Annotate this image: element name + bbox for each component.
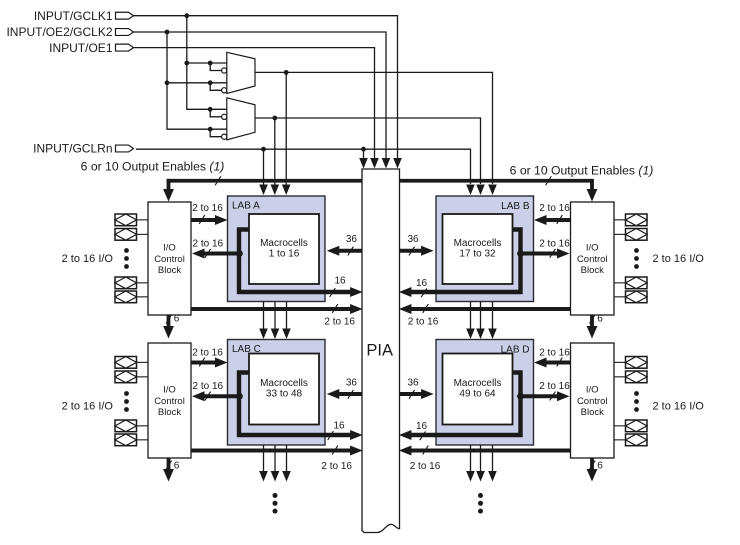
macrocells box LAB A	[249, 214, 319, 284]
input pad INPUT/OE1	[49, 41, 133, 55]
svg-text:Control: Control	[154, 254, 185, 265]
thick feedback wrap LAB C with 16 bus to PIA	[239, 373, 363, 441]
label 16 bus LAB C	[328, 421, 345, 440]
svg-text:49 to 64: 49 to 64	[459, 388, 496, 399]
svg-text:LAB B: LAB B	[501, 201, 530, 212]
LAB A block	[228, 196, 326, 302]
svg-text:Control: Control	[154, 396, 185, 407]
bus 2 to 16 from LAB B to I/O Control Block	[521, 239, 571, 259]
bus 6 below I/O Control Block (LAB C side)	[163, 458, 180, 482]
svg-text:Macrocells: Macrocells	[260, 378, 308, 389]
svg-text:2 to 16: 2 to 16	[192, 203, 223, 214]
svg-text:I/O: I/O	[586, 243, 599, 254]
bus 2 to 16 from I/O Control Block into LAB B	[534, 203, 572, 225]
svg-text:2 to 16 I/O: 2 to 16 I/O	[653, 400, 705, 412]
mux U1 input pair 2 inverted-input stub and junction dot	[208, 80, 227, 93]
bus 2 to 16 from I/O Control Block into LAB A	[190, 203, 228, 225]
bus 2 to 16 from I/O Control Block to PIA below LAB A	[191, 304, 363, 327]
LAB B block	[436, 196, 534, 302]
svg-text:17 to 32: 17 to 32	[459, 248, 496, 259]
I/O cell 1 (LAB C side)	[115, 357, 148, 369]
wires below LAB D	[466, 445, 497, 482]
label Macrocells 33 to 48	[260, 378, 308, 400]
I/O Control Block (LAB C side)	[148, 343, 191, 458]
svg-text:Block: Block	[158, 265, 181, 276]
svg-text:36: 36	[407, 377, 419, 388]
wire GCLK2 feed vertical to mux inputs	[167, 32, 227, 129]
svg-text:Control: Control	[577, 254, 608, 265]
wire GCLRn drop into LAB A	[259, 147, 268, 195]
svg-text:I/O: I/O	[163, 385, 176, 396]
I/O Control Block (LAB A side)	[148, 202, 191, 315]
svg-text:36: 36	[407, 234, 419, 245]
svg-text:36: 36	[346, 234, 358, 245]
svg-text:LAB A: LAB A	[232, 200, 260, 211]
input pad INPUT/OE2/GCLK2	[6, 25, 133, 39]
ellipsis dots below LAB C	[273, 493, 278, 514]
macrocells box LAB D	[443, 354, 513, 425]
I/O cell 3 (LAB D side)	[614, 420, 647, 432]
svg-text:Block: Block	[158, 407, 181, 418]
bus 2 to 16 from I/O Control Block to PIA below LAB D	[399, 446, 571, 472]
svg-text:6 or 10 Output Enables (1): 6 or 10 Output Enables (1)	[81, 160, 225, 174]
wire mux1 lower input branch from GCLK2	[167, 82, 227, 84]
macrocells box LAB B	[443, 214, 513, 284]
bus 2 to 16 from LAB D to I/O Control Block	[521, 381, 571, 401]
wire GCLK1: right then down into PIA	[134, 16, 402, 169]
svg-text:16: 16	[334, 276, 346, 287]
svg-text:Macrocells: Macrocells	[454, 238, 502, 249]
bus 36 from PIA into LAB C	[327, 377, 362, 399]
thick feedback wrap LAB A with 16 bus to PIA	[239, 230, 363, 298]
I/O Control Block (LAB D side)	[571, 343, 615, 458]
I/O cell 2 (LAB A side)	[115, 229, 148, 241]
bus 6 below I/O Control Block (LAB A side)	[163, 314, 180, 339]
svg-text:36: 36	[346, 377, 358, 388]
svg-text:6: 6	[597, 461, 603, 472]
label 16 bus LAB A	[330, 276, 346, 297]
wire mux U2 output drop into LAB A	[271, 116, 280, 195]
svg-text:INPUT/OE2/GCLK2: INPUT/OE2/GCLK2	[6, 25, 112, 39]
svg-text:16: 16	[416, 421, 428, 432]
svg-text:I/O: I/O	[586, 385, 599, 396]
bus 36 from PIA into LAB B	[400, 234, 434, 256]
wire mux U1 output: right then down into LAB B	[255, 72, 497, 195]
wires LAB B to LAB D	[466, 302, 497, 340]
bus 2 to 16 from LAB C to I/O Control Block	[192, 381, 239, 401]
svg-text:I/O: I/O	[163, 243, 176, 254]
svg-text:Block: Block	[581, 265, 604, 276]
bus arrow down into left I/O Control Block	[163, 179, 174, 202]
junction dot on wrap LAB A	[236, 250, 243, 257]
svg-text:33 to 48: 33 to 48	[266, 388, 303, 399]
I/O cell 3 (LAB B side)	[614, 277, 647, 289]
label 16 bus LAB B	[416, 278, 428, 297]
svg-text:16: 16	[333, 421, 345, 432]
bus 36 from PIA into LAB D	[400, 377, 434, 399]
bus 2 to 16 from I/O Control Block into LAB D	[534, 348, 572, 368]
label Macrocells 17 to 32	[454, 238, 502, 260]
bus 36 from PIA into LAB A	[327, 234, 362, 256]
bus width slash left	[215, 176, 221, 185]
svg-text:2 to 16: 2 to 16	[321, 461, 352, 472]
bus width slash right	[546, 176, 552, 185]
svg-text:2 to 16: 2 to 16	[539, 203, 570, 214]
svg-text:2 to 16: 2 to 16	[410, 461, 441, 472]
svg-text:1 to 16: 1 to 16	[269, 248, 300, 259]
junction dot on wrap LAB D	[517, 393, 524, 400]
svg-text:Block: Block	[581, 407, 604, 418]
svg-text:INPUT/GCLRn: INPUT/GCLRn	[33, 142, 112, 156]
svg-text:2 to 16 I/O: 2 to 16 I/O	[653, 253, 705, 265]
thick feedback wrap LAB D with 16 bus to PIA	[399, 373, 521, 441]
I/O cell 4 (LAB B side)	[614, 291, 647, 303]
svg-text:6 or 10 Output Enables (1): 6 or 10 Output Enables (1)	[510, 163, 654, 177]
svg-text:2 to 16: 2 to 16	[193, 239, 224, 250]
svg-text:2 to 16: 2 to 16	[408, 316, 439, 327]
wire GCLRn: right then down into LAB B	[136, 149, 475, 195]
bus 2 to 16 from I/O Control Block to PIA below LAB C	[191, 446, 363, 472]
label Macrocells 49 to 64	[454, 378, 502, 400]
svg-text:6: 6	[174, 461, 180, 472]
svg-text:Macrocells: Macrocells	[260, 238, 308, 249]
junction dot on wrap LAB B	[517, 250, 524, 257]
I/O cell 3 (LAB C side)	[115, 420, 148, 432]
I/O cell 2 (LAB D side)	[614, 371, 647, 383]
svg-text:Macrocells: Macrocells	[454, 378, 502, 389]
bus 6 below I/O Control Block (LAB B side)	[587, 314, 604, 339]
bus 2 to 16 from I/O Control Block into LAB C	[190, 348, 228, 368]
bus 6 below I/O Control Block (LAB D side)	[587, 458, 604, 482]
label Macrocells 1 to 16	[260, 238, 308, 260]
I/O cell 4 (LAB A side)	[115, 291, 148, 303]
label 16 bus LAB D	[416, 421, 428, 440]
bus 2 to 16 from LAB A to I/O Control Block	[192, 239, 239, 259]
junction dot on wrap LAB C	[236, 393, 243, 400]
LAB C block	[228, 340, 326, 446]
svg-text:INPUT/OE1: INPUT/OE1	[49, 41, 113, 55]
svg-text:2 to 16 I/O: 2 to 16 I/O	[62, 400, 114, 412]
mux U1 input pair 1 inverted-input stub and junction dot	[208, 61, 227, 74]
vertical ellipsis dots between I/O cells (LAB A side)	[124, 248, 129, 269]
LAB D block	[436, 340, 534, 446]
wires below LAB C	[259, 445, 291, 482]
ellipsis dots below LAB D	[478, 493, 483, 514]
I/O Control Block (LAB B side)	[571, 202, 615, 315]
I/O cell 3 (LAB A side)	[115, 277, 148, 289]
wire mux U2 output: right then down into LAB B	[255, 118, 485, 195]
vertical ellipsis dots between I/O cells (LAB D side)	[634, 391, 639, 412]
I/O cell 4 (LAB D side)	[614, 434, 647, 446]
wire OE1: right then down into PIA	[134, 48, 379, 169]
svg-text:INPUT/GCLK1: INPUT/GCLK1	[34, 9, 113, 23]
svg-text:2 to 16: 2 to 16	[324, 316, 355, 327]
I/O cell 1 (LAB D side)	[614, 357, 647, 369]
vertical ellipsis dots between I/O cells (LAB C side)	[124, 391, 129, 412]
I/O cell 2 (LAB B side)	[614, 229, 647, 241]
mux U2 input pair 1 inverted-input stub and junction dot	[208, 107, 227, 120]
wire OE2/GCLK2: right then down into PIA	[134, 32, 391, 169]
bus 2 to 16 from I/O Control Block to PIA below LAB B	[399, 304, 571, 327]
svg-text:16: 16	[416, 278, 428, 289]
input pad INPUT/GCLK1	[34, 9, 134, 23]
wire GCLK1 feed vertical to mux inputs	[187, 16, 227, 110]
I/O cell 1 (LAB A side)	[115, 214, 148, 226]
wire GCLRn drop into PIA	[359, 147, 368, 169]
PIA block with torn bottom edge	[362, 169, 400, 533]
mux U2 body	[227, 98, 255, 140]
input pad INPUT/GCLRn	[33, 142, 133, 156]
wire mux U1 output drop into LAB A	[282, 70, 291, 195]
I/O cell 4 (LAB C side)	[115, 434, 148, 446]
mux U1 body	[227, 52, 255, 93]
junction dots on input feed wires	[165, 13, 190, 85]
svg-text:Control: Control	[577, 396, 608, 407]
macrocells box LAB C	[249, 354, 319, 425]
vertical ellipsis dots between I/O cells (LAB B side)	[634, 248, 639, 269]
svg-text:6: 6	[174, 314, 180, 325]
I/O cell 1 (LAB B side)	[614, 214, 647, 226]
svg-text:2 to 16: 2 to 16	[539, 381, 570, 392]
wire mux1 input branch from GCLK1	[187, 62, 227, 64]
svg-text:2 to 16: 2 to 16	[192, 348, 223, 359]
svg-text:2 to 16 I/O: 2 to 16 I/O	[62, 253, 114, 265]
I/O cell 2 (LAB C side)	[115, 371, 148, 383]
bus arrow down into right I/O Control Block	[587, 179, 598, 202]
svg-text:6: 6	[597, 314, 603, 325]
bus 6 or 10 Output Enables horizontal	[167, 179, 592, 183]
svg-text:2 to 16: 2 to 16	[193, 381, 224, 392]
svg-text:2 to 16: 2 to 16	[539, 348, 570, 359]
thick feedback wrap LAB B with 16 bus to PIA	[399, 230, 521, 298]
svg-text:PIA: PIA	[366, 342, 393, 360]
mux U2 input pair 2 inverted-input stub and junction dot	[208, 127, 227, 139]
svg-text:2 to 16: 2 to 16	[539, 239, 570, 250]
wires LAB A to LAB C	[259, 302, 291, 340]
